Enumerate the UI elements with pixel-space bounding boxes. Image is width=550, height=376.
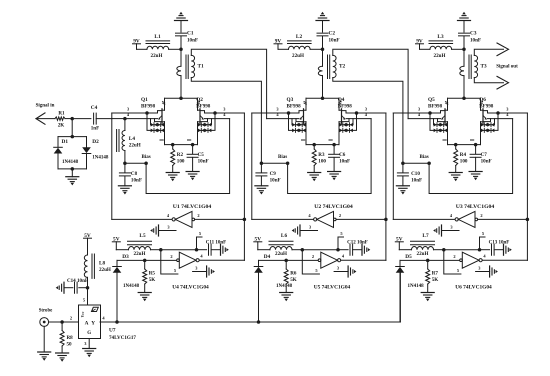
wire (drain box top) — [165, 97, 198, 99]
protection diodes Q6 — [481, 113, 499, 132]
wire (U3 output) — [393, 213, 455, 219]
op-amp U4 74LVC1G04 inverter — [172, 252, 209, 290]
svg-text:Signal out: Signal out — [496, 65, 518, 70]
svg-text:T1: T1 — [198, 63, 205, 69]
label Signal out — [496, 65, 518, 70]
wire (source box bottom) — [306, 122, 339, 145]
wire (to inverter input) — [286, 254, 318, 260]
svg-text:Q1: Q1 — [141, 97, 148, 103]
svg-text:Strobe: Strobe — [39, 309, 53, 314]
ground (inverted) above C1 — [175, 12, 188, 21]
svg-text:1N4148: 1N4148 — [62, 160, 79, 165]
svg-text:U2 74LVC1G04: U2 74LVC1G04 — [314, 204, 353, 210]
capacitor C8 10nF — [119, 161, 142, 185]
wire — [462, 36, 466, 51]
ground — [469, 172, 482, 181]
U5 pin 5 stub — [302, 250, 319, 274]
transformer T3 primary — [460, 49, 466, 100]
svg-text:10nF: 10nF — [411, 178, 422, 184]
ground — [83, 349, 96, 358]
transformer T1 core — [186, 55, 188, 79]
transistor Q1 BF998 — [127, 97, 165, 124]
wire (source box bottom) — [165, 122, 198, 145]
svg-text:Q4: Q4 — [338, 97, 345, 103]
svg-text:U5 74LVC1G04: U5 74LVC1G04 — [314, 284, 351, 290]
svg-text:5K: 5K — [290, 277, 297, 283]
wire (VCC line) — [159, 248, 207, 252]
transformer T2 core — [328, 55, 330, 79]
transformer T1 secondary — [191, 55, 204, 77]
wire (U3 input) — [478, 213, 529, 221]
node Bias — [403, 155, 431, 165]
svg-text:G: G — [87, 331, 91, 336]
svg-text:L8: L8 — [99, 260, 106, 266]
svg-text:10nF: 10nF — [198, 159, 209, 165]
wire (bias loop) — [146, 119, 230, 194]
svg-text:D1: D1 — [62, 139, 69, 145]
wire (secondary bottom to signal out) — [474, 78, 503, 83]
svg-text:74LVC1G17: 74LVC1G17 — [109, 335, 136, 341]
svg-text:R4: R4 — [460, 152, 467, 158]
transformer T3 core — [469, 55, 471, 79]
inductor L7 22uH — [399, 233, 444, 257]
wire (secondary bottom to next stage bias) — [191, 78, 261, 164]
U3 pin 5 stub — [480, 231, 486, 250]
wire (U6 output) — [482, 253, 527, 260]
wire — [70, 117, 90, 121]
svg-text:U7: U7 — [109, 328, 116, 334]
wire (secondary bottom to next stage bias) — [333, 78, 403, 164]
protection diodes Q3 — [289, 113, 307, 132]
svg-text:10nF: 10nF — [470, 37, 481, 43]
transformer T3 secondary — [474, 55, 487, 77]
svg-text:BF998: BF998 — [428, 103, 443, 109]
ground (inverted) above C3 — [458, 12, 471, 21]
svg-text:U4 74LVC1G04: U4 74LVC1G04 — [172, 284, 209, 290]
svg-text:10nF: 10nF — [187, 37, 198, 43]
wire (feedback riser) — [385, 113, 387, 260]
wire (U1 input) — [195, 213, 246, 221]
transformer T2 primary — [318, 49, 324, 100]
wire (gate 2 pin 4 Q1) — [125, 118, 158, 120]
op-amp U3 74LVC1G04 inverter — [455, 204, 494, 227]
svg-text:10nF: 10nF — [131, 178, 142, 184]
svg-text:L3: L3 — [437, 34, 444, 40]
wire (input riser to U3 output) — [392, 113, 394, 219]
svg-text:10nF: 10nF — [481, 159, 492, 165]
svg-text:Q3: Q3 — [287, 97, 294, 103]
svg-text:C7: C7 — [481, 152, 488, 158]
buffer U7 74LVC1G17 — [79, 305, 137, 341]
5V power symbol — [395, 237, 403, 250]
signal out arrow (top) — [497, 43, 509, 56]
wire (gate 1 pin 3 Q5) — [393, 111, 440, 115]
svg-text:C1: C1 — [187, 31, 194, 37]
svg-text:BF998: BF998 — [338, 103, 353, 109]
wire (U2 output) — [252, 213, 314, 219]
ground — [118, 186, 131, 195]
svg-text:C3: C3 — [470, 31, 477, 37]
wire (feedback riser) — [243, 113, 245, 260]
ground — [280, 293, 293, 302]
svg-text:1N4148: 1N4148 — [92, 155, 109, 160]
substrate marks — [302, 139, 333, 141]
ground (sideways) — [221, 244, 229, 255]
resistor R5 5K — [143, 259, 156, 293]
9V power symbol — [133, 39, 141, 50]
svg-text:1nF: 1nF — [91, 126, 100, 132]
svg-text:22uH: 22uH — [99, 267, 111, 273]
capacitor C10 10nF — [397, 161, 422, 185]
transistor Q2 BF998 — [196, 97, 226, 124]
wire (input riser to U2 output) — [251, 113, 253, 219]
svg-text:C13 10nF: C13 10nF — [489, 241, 510, 246]
wire (VCC line) — [301, 248, 349, 252]
wire (diode clamp stem) — [71, 119, 75, 139]
wire (U4 output) — [199, 253, 244, 260]
inductor L5 22uH — [116, 233, 161, 257]
ground — [421, 293, 434, 302]
svg-text:2: 2 — [70, 315, 72, 320]
svg-text:L6: L6 — [281, 233, 288, 239]
svg-text:C9: C9 — [270, 171, 277, 177]
svg-text:C10: C10 — [411, 171, 420, 177]
wire — [463, 21, 465, 33]
svg-text:L4: L4 — [129, 136, 136, 142]
svg-text:D3: D3 — [122, 254, 129, 260]
protection diodes Q5 — [430, 113, 448, 132]
svg-text:T3: T3 — [481, 63, 488, 69]
resistor R4 100 — [454, 143, 468, 173]
svg-text:D4: D4 — [264, 254, 271, 260]
wire (to inverter input) — [428, 254, 460, 260]
U2 pin 3 ground stub — [292, 224, 318, 236]
svg-text:R2: R2 — [177, 152, 184, 158]
wire (gate 1 pin 3 Q4) — [346, 111, 386, 115]
svg-text:BF998: BF998 — [479, 103, 494, 109]
inductor L4 22uH — [117, 117, 141, 163]
svg-text:L7: L7 — [422, 233, 429, 239]
svg-text:C4: C4 — [91, 105, 98, 111]
svg-text:22uH: 22uH — [434, 53, 446, 59]
ground — [186, 172, 199, 181]
substrate marks — [160, 139, 191, 141]
svg-text:Q6: Q6 — [479, 97, 486, 103]
svg-text:R6: R6 — [290, 270, 297, 276]
wire (drain box top) — [448, 97, 481, 99]
svg-text:22uH: 22uH — [275, 251, 287, 257]
svg-text:1N4148: 1N4148 — [276, 284, 293, 289]
svg-text:Bias: Bias — [142, 155, 151, 160]
svg-text:C5: C5 — [198, 152, 205, 158]
U7 pin 3 ground stub — [84, 339, 89, 349]
svg-text:Y: Y — [91, 320, 95, 326]
svg-text:R5: R5 — [149, 270, 156, 276]
diode D2 1N4148 — [82, 137, 109, 169]
svg-text:D2: D2 — [92, 139, 99, 145]
protection diodes Q2 — [198, 113, 216, 132]
svg-text:100: 100 — [177, 159, 185, 165]
capacitor C6 10nF — [329, 143, 351, 172]
svg-text:22uH: 22uH — [129, 143, 141, 149]
wire (gate 2 pin 4 Q4) — [346, 118, 371, 120]
U6 pin 3 ground stub — [476, 265, 498, 277]
svg-text:22uH: 22uH — [134, 251, 146, 257]
svg-text:C12 10nF: C12 10nF — [347, 241, 368, 246]
svg-text:10nF: 10nF — [270, 178, 281, 184]
wire (bias loop) — [288, 119, 372, 194]
resistor R3 100 — [312, 143, 326, 173]
wire — [179, 36, 183, 51]
op-amp U2 74LVC1G04 inverter — [314, 204, 353, 227]
capacitor C11 10nF — [206, 241, 226, 256]
wire (bias loop) — [429, 119, 512, 194]
inductor L8 22uH — [84, 254, 111, 289]
wire — [180, 21, 182, 33]
ground — [328, 172, 341, 181]
transformer T2 secondary — [333, 55, 346, 77]
svg-text:10nF: 10nF — [329, 37, 340, 43]
U1 pin 3 ground stub — [150, 224, 176, 236]
svg-text:Bias: Bias — [420, 155, 429, 160]
svg-text:2: 2 — [312, 254, 314, 259]
U2 pin 5 stub — [338, 231, 344, 250]
svg-text:R8: R8 — [67, 335, 74, 341]
wire (U1 output) — [112, 213, 172, 219]
ground — [396, 186, 409, 195]
ground — [308, 173, 321, 182]
svg-text:Q5: Q5 — [428, 97, 435, 103]
inductor L2 22uH — [278, 34, 323, 59]
ground — [449, 173, 462, 182]
U4 pin 5 stub — [161, 250, 178, 274]
op-amp U6 74LVC1G04 inverter — [455, 252, 492, 290]
wire (gate 2 pin 4 Q6) — [488, 118, 513, 120]
U3 pin 3 ground stub — [433, 224, 459, 236]
9V power symbol — [274, 39, 282, 50]
ground — [38, 352, 51, 361]
wire (feedback riser) — [526, 113, 528, 260]
svg-text:L1: L1 — [154, 34, 161, 40]
wire (U7 Vcc) — [83, 288, 88, 305]
capacitor C14 10nF — [64, 278, 88, 293]
wire (connector ground stem) — [43, 326, 45, 352]
ground — [255, 186, 268, 195]
ground (sideways) — [362, 244, 370, 255]
wire (gate 1 pin 3 Q2) — [205, 111, 245, 115]
U1 pin 5 stub — [197, 231, 203, 250]
resistor R7 5K — [426, 259, 439, 293]
resistor R8 50 — [60, 322, 73, 353]
svg-text:2K: 2K — [58, 123, 65, 129]
wire (U2 input) — [336, 213, 387, 221]
U5 pin 3 ground stub — [334, 265, 356, 277]
transistor Q4 BF998 — [338, 97, 368, 124]
wire (gate 2 pin 4 Q2) — [205, 118, 230, 120]
5V power symbol — [84, 233, 92, 255]
node Bias — [125, 155, 151, 165]
ground — [56, 353, 69, 362]
svg-text:D5: D5 — [405, 254, 412, 260]
svg-text:5K: 5K — [432, 277, 439, 283]
svg-text:R1: R1 — [58, 111, 65, 117]
svg-text:Signal in: Signal in — [36, 104, 55, 109]
U4 pin 3 ground stub — [193, 265, 215, 277]
svg-text:BF998: BF998 — [141, 103, 156, 109]
protection diodes Q4 — [339, 113, 357, 132]
inductor L1 22uH — [137, 34, 182, 59]
svg-text:R3: R3 — [318, 152, 325, 158]
5V power symbol — [254, 237, 262, 250]
resistor R2 100 — [171, 143, 185, 173]
diode D5 1N4148 — [396, 254, 428, 322]
ground (sideways) — [56, 282, 64, 293]
wire (VCC line) — [442, 248, 490, 252]
svg-text:2: 2 — [339, 213, 341, 218]
diode D1 1N4148 — [54, 137, 87, 169]
node Bias — [261, 155, 289, 165]
svg-text:Vcc: Vcc — [81, 311, 85, 317]
svg-text:L2: L2 — [296, 34, 303, 40]
svg-text:R7: R7 — [432, 270, 439, 276]
resistor R1 2K — [36, 111, 72, 129]
ground (inverted) above C2 — [316, 12, 329, 21]
transformer T1 primary — [177, 49, 183, 100]
svg-text:22uH: 22uH — [292, 53, 304, 59]
svg-text:C14 10nF: C14 10nF — [67, 278, 88, 284]
protection diodes Q1 — [147, 113, 165, 132]
svg-text:1N4148: 1N4148 — [123, 284, 140, 289]
wire — [49, 315, 79, 323]
svg-text:2: 2 — [480, 213, 482, 218]
transistor Q6 BF998 — [479, 97, 509, 124]
wire (secondary top to next stage) — [333, 49, 408, 118]
svg-text:100: 100 — [460, 159, 468, 165]
signal out arrow (bottom) — [497, 76, 509, 89]
svg-text:U6 74LVC1G04: U6 74LVC1G04 — [455, 284, 492, 290]
svg-text:10nF: 10nF — [339, 159, 350, 165]
capacitor C7 10nF — [470, 143, 492, 172]
9V power symbol — [416, 39, 424, 50]
svg-text:C6: C6 — [339, 152, 346, 158]
signal in terminal — [36, 104, 55, 125]
wire (gate 2 pin 4 Q3) — [267, 118, 299, 120]
wire (drain box top) — [306, 97, 339, 99]
svg-text:22uH: 22uH — [151, 53, 163, 59]
ground — [66, 177, 79, 186]
svg-text:100: 100 — [318, 159, 326, 165]
wire (source box bottom) — [448, 122, 481, 145]
wire (gate 2 pin 4 Q5) — [408, 118, 440, 120]
svg-text:2: 2 — [197, 213, 199, 218]
substrate marks — [443, 139, 474, 141]
svg-text:A: A — [85, 320, 89, 326]
wire (U7 output rail) — [100, 273, 400, 324]
svg-text:22uH: 22uH — [417, 251, 429, 257]
wire (U5 output) — [341, 253, 386, 260]
svg-text:Q2: Q2 — [196, 97, 203, 103]
ground — [138, 293, 151, 302]
op-amp U1 74LVC1G04 inverter — [172, 204, 211, 227]
capacitor C9 10nF — [256, 161, 281, 185]
wire (gate 1 pin 3 Q6) — [488, 111, 528, 115]
svg-text:50: 50 — [67, 342, 73, 348]
svg-text:BF998: BF998 — [196, 103, 211, 109]
capacitor C12 10nF — [347, 241, 368, 256]
svg-text:C2: C2 — [329, 31, 336, 37]
svg-text:C8: C8 — [131, 171, 138, 177]
wire (secondary top to signal out) — [474, 49, 503, 55]
5V power symbol — [112, 237, 120, 250]
svg-text:5K: 5K — [149, 277, 156, 283]
capacitor C2 10nF — [317, 31, 340, 44]
wire (gate 1 pin 3 Q1) — [112, 111, 158, 115]
capacitor C5 10nF — [187, 143, 209, 172]
strobe connector — [39, 309, 53, 327]
transistor Q3 BF998 — [276, 97, 306, 124]
wire — [58, 167, 87, 177]
capacitor C13 10nF — [489, 241, 510, 256]
wire (input riser to U1 output) — [111, 113, 113, 219]
U6 pin 5 stub — [444, 250, 461, 274]
ground — [166, 173, 179, 182]
svg-text:1N4148: 1N4148 — [408, 284, 425, 289]
svg-text:U1 74LVC1G04: U1 74LVC1G04 — [173, 204, 212, 210]
resistor R6 5K — [284, 259, 297, 293]
wire (to inverter input) — [145, 254, 177, 260]
svg-text:BF998: BF998 — [287, 103, 302, 109]
svg-text:U3 74LVC1G04: U3 74LVC1G04 — [456, 204, 495, 210]
wire — [321, 36, 325, 51]
svg-text:T2: T2 — [339, 63, 346, 69]
wire (secondary top to next stage) — [191, 49, 266, 118]
diode D4 1N4148 — [254, 254, 292, 322]
inductor L6 22uH — [258, 233, 303, 257]
op-amp U5 74LVC1G04 inverter — [314, 252, 351, 290]
capacitor C3 10nF — [459, 31, 482, 44]
svg-text:2: 2 — [453, 254, 455, 259]
diode D3 1N4148 — [113, 254, 145, 322]
wire (gate 1 pin 3 Q3) — [252, 111, 299, 115]
svg-text:L5: L5 — [139, 233, 146, 239]
transistor Q5 BF998 — [418, 97, 448, 124]
capacitor C1 10nF — [176, 31, 199, 44]
svg-text:C11 10nF: C11 10nF — [206, 241, 226, 246]
wire — [322, 21, 324, 33]
svg-text:2: 2 — [170, 254, 172, 259]
svg-text:Bias: Bias — [278, 155, 287, 160]
wire — [96, 118, 125, 120]
ground (sideways) — [504, 244, 512, 255]
capacitor C4 1nF — [91, 105, 100, 131]
inductor L3 22uH — [420, 34, 465, 59]
